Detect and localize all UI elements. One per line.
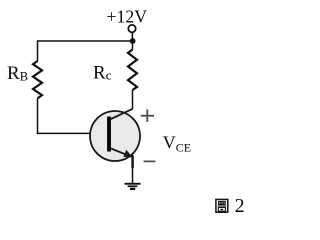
minus sign (VCE polarity) (144, 160, 156, 162)
transistor Q1 base bar (107, 117, 111, 152)
transistor Q1 emitter lead (thicker stub) (131, 156, 133, 169)
node: supply junction dot (130, 38, 136, 44)
transistor Q1 emitter stroke (110, 148, 129, 156)
supply terminal (open circle) (128, 25, 135, 32)
wire: top horizontal rail (38, 40, 133, 42)
wire: emitter vertical to ground (132, 155, 134, 184)
svg-text:RB: RB (7, 63, 28, 84)
plus sign (VCE polarity) (141, 109, 154, 122)
ground symbol (125, 183, 141, 190)
wire terminal to junction (131, 32, 133, 41)
svg-text:+12V: +12V (107, 6, 148, 26)
svg-text:2: 2 (235, 195, 245, 217)
wire: base horizontal (37, 132, 108, 134)
svg-text:Rc: Rc (93, 63, 112, 84)
resistor Rc (zigzag) (128, 50, 137, 91)
transistor Q1 collector stroke (110, 109, 133, 120)
wire: left vertical lower segment (37, 98, 39, 133)
transistor Q1 body (circle) (90, 111, 140, 161)
svg-text:VCE: VCE (163, 133, 191, 155)
resistor RB (zigzag) (33, 61, 42, 98)
wire: Rc top stub (132, 41, 134, 50)
figure caption: character 圖 (drawn) (216, 199, 228, 212)
wire: left vertical upper segment (37, 40, 39, 61)
transistor Q1 emitter arrowhead (123, 150, 132, 158)
wire: collector vertical (132, 90, 134, 109)
